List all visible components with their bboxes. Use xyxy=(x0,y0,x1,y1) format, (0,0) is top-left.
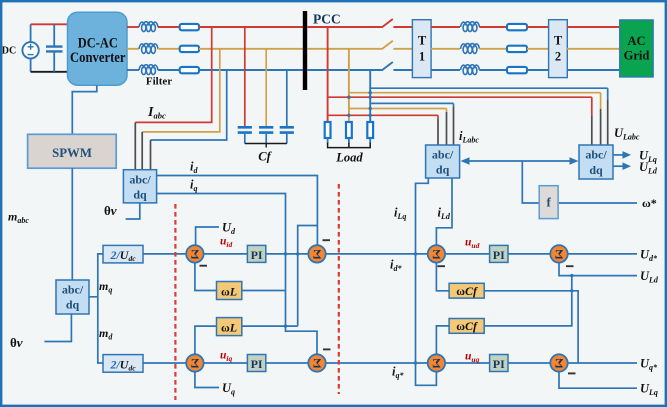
wire iL-meas C vertical gray xyxy=(453,103,455,107)
2/Udc block top xyxy=(103,245,143,263)
inductor grid Lc xyxy=(461,65,480,75)
minus S3 xyxy=(438,265,446,267)
svg-text:Σ: Σ xyxy=(191,356,200,371)
capacitor Cf B xyxy=(259,127,273,132)
wire load tap C blue vertical xyxy=(369,70,371,122)
wL block top xyxy=(217,282,242,300)
wire Cf tap C blue xyxy=(286,70,288,126)
svg-text:AC: AC xyxy=(627,34,645,48)
wire xyxy=(479,48,507,50)
wire U-meas A red horizontal xyxy=(328,96,592,98)
minus S1 xyxy=(200,265,208,267)
U_Lq output arrow xyxy=(613,151,631,159)
svg-text:Σ: Σ xyxy=(313,247,322,262)
wire T2 to grid C xyxy=(567,69,619,71)
load resistor RLa xyxy=(325,122,331,138)
wire Cf tap A red xyxy=(244,27,246,126)
PI block d-outer xyxy=(490,245,508,262)
load common bracket xyxy=(328,143,371,148)
svg-text:PI: PI xyxy=(493,248,505,262)
switch SB xyxy=(382,41,393,50)
wire I_abc verticals gray into abc/dq xyxy=(134,122,136,170)
wire theta-nu 2 to abc/dq U4 xyxy=(44,314,71,342)
svg-text:2: 2 xyxy=(555,49,561,63)
svg-text:ωL: ωL xyxy=(221,321,237,335)
summing junction S8 xyxy=(550,354,567,371)
switch SA xyxy=(382,19,393,28)
AC Grid xyxy=(620,20,654,77)
wire wL bottom right to i_d branch xyxy=(242,325,298,327)
wire q-axis main line xyxy=(143,362,637,364)
wire U-meas C blue horizontal xyxy=(370,87,608,89)
PI block q-inner xyxy=(247,355,265,372)
wire I_abc tap B orange xyxy=(142,49,220,132)
capacitor Cf A xyxy=(238,127,252,132)
wire iL-meas C blue horizontal xyxy=(370,102,453,104)
inductor grid Lb xyxy=(461,44,480,54)
wire wCf top right down to q output line xyxy=(484,291,578,363)
svg-text:Cf: Cf xyxy=(258,150,272,164)
svg-text:DC: DC xyxy=(2,46,16,57)
svg-text:Σ: Σ xyxy=(313,356,322,371)
svg-text:Σ: Σ xyxy=(432,356,441,371)
svg-text:abc/: abc/ xyxy=(62,283,84,297)
wire phase C after PCC xyxy=(307,69,381,71)
wire sum4 bottom to U_Ld line xyxy=(559,263,637,276)
wire load tap B orange vertical xyxy=(348,49,350,123)
wire U_Ld drop to wCf bottom xyxy=(484,276,572,326)
wire xyxy=(393,48,413,50)
U_Ld output arrow xyxy=(613,162,631,170)
svg-text:PI: PI xyxy=(251,248,263,262)
svg-text:Grid: Grid xyxy=(624,49,650,63)
summing junction S4 xyxy=(550,245,567,262)
svg-text:Σ: Σ xyxy=(432,247,441,262)
svg-text:PI: PI xyxy=(251,357,263,371)
wire I_abc tap A red xyxy=(135,27,211,122)
wire f to omega* xyxy=(559,202,637,204)
svg-text:ω*: ω* xyxy=(642,196,657,210)
svg-text:Load: Load xyxy=(335,151,363,165)
wire to T2 xyxy=(527,69,549,71)
wire phase C to PCC xyxy=(199,69,303,71)
minus S4 xyxy=(566,265,574,267)
transformer T2 xyxy=(549,20,568,78)
svg-text:abc/: abc/ xyxy=(129,173,151,187)
wire iL-meas B orange horizontal xyxy=(349,108,447,110)
wire i_d output xyxy=(157,176,318,246)
capacitor C_dc xyxy=(46,24,63,72)
svg-text:Converter: Converter xyxy=(70,50,126,66)
wire i_Lq from abc/dq U2 xyxy=(416,178,437,385)
load resistor RLb xyxy=(346,122,352,138)
wire U-meas C vertical into abc/dq xyxy=(607,88,609,99)
abc/dq U2 (load current) xyxy=(426,145,460,178)
svg-text:dq: dq xyxy=(436,163,450,177)
wire: dc top red xyxy=(31,23,69,25)
svg-text:Filter: Filter xyxy=(146,76,172,88)
resistor grid Rc xyxy=(507,67,527,73)
wire phase B after PCC xyxy=(307,48,381,50)
wCf block top xyxy=(449,283,484,298)
wire I_abc tap C blue xyxy=(151,70,227,140)
svg-text:T: T xyxy=(554,33,563,47)
resistor Rc xyxy=(180,67,199,73)
svg-text:abc/: abc/ xyxy=(432,148,454,162)
resistor Ra xyxy=(180,24,199,30)
svg-text:PCC: PCC xyxy=(313,12,341,27)
abc/dq U4 (modulation) xyxy=(56,280,89,314)
wire U-meas A vertical into abc/dq xyxy=(591,97,593,115)
wire phase A after PCC xyxy=(307,26,381,28)
summing junction S2 xyxy=(308,245,325,262)
load resistor RLc xyxy=(367,122,373,138)
dashed boundary left xyxy=(174,204,176,400)
svg-text:T: T xyxy=(418,33,427,47)
DC source V1 xyxy=(22,24,38,72)
minus S2 xyxy=(323,239,331,241)
minus S8 xyxy=(568,372,576,374)
summing junction S1 xyxy=(186,245,203,262)
svg-text:dq: dq xyxy=(133,188,147,202)
wire xyxy=(393,69,413,71)
transformer T1 xyxy=(412,20,431,78)
svg-text:ωL: ωL xyxy=(221,285,237,299)
svg-text:f: f xyxy=(547,195,552,210)
wire sum1 to wL top xyxy=(195,263,217,291)
wire to T2 xyxy=(527,48,549,50)
svg-text:dq: dq xyxy=(66,298,80,312)
inductor grid La xyxy=(461,22,480,32)
abc/dq U5 (inverter current) xyxy=(123,170,156,203)
wire U_q input xyxy=(195,372,219,388)
DC-AC Converter U1 xyxy=(68,12,128,85)
svg-text:θν: θν xyxy=(10,335,23,350)
svg-text:Σ: Σ xyxy=(191,247,200,262)
wire phase A to PCC xyxy=(199,26,303,28)
wire iL-meas B vertical gray xyxy=(446,109,448,113)
svg-text:SPWM: SPWM xyxy=(52,146,92,160)
wire d-axis main line xyxy=(143,253,637,255)
wire i_Ld from abc/dq U2 xyxy=(436,178,452,245)
wire xyxy=(393,26,413,28)
PI block q-outer xyxy=(490,355,508,372)
wire phase A red: converter to coil xyxy=(127,26,139,28)
Cf common bracket xyxy=(245,144,287,148)
svg-text:dq: dq xyxy=(589,163,603,177)
wire sum3 to wCf top xyxy=(436,263,449,291)
wire stubs below load resistors xyxy=(328,138,371,143)
svg-text:θν: θν xyxy=(104,203,117,218)
resistor Rb xyxy=(180,46,199,52)
wCf block bottom xyxy=(449,319,484,334)
wire Cf tap B orange xyxy=(265,49,267,126)
svg-text:PI: PI xyxy=(493,357,505,371)
inductor Lb xyxy=(139,44,158,54)
resistor grid Rb xyxy=(507,46,527,52)
svg-text:1: 1 xyxy=(419,49,425,63)
wire i_d branch to wL bottom xyxy=(298,226,318,327)
svg-text:Σ: Σ xyxy=(555,356,564,371)
wire xyxy=(479,69,507,71)
abc/dq U3 (load voltage) xyxy=(579,145,613,179)
PI block d-inner xyxy=(247,245,265,262)
summing junction S7 xyxy=(428,354,445,371)
wire theta-nu 1 to abc/dq U5 xyxy=(126,203,140,219)
wire T1 to coil C xyxy=(431,69,460,71)
svg-text:Σ: Σ xyxy=(555,247,564,262)
PCC bus bar xyxy=(303,11,307,90)
wire xyxy=(158,26,180,28)
2/Udc block bottom xyxy=(103,355,143,373)
summing junction S3 xyxy=(428,245,445,262)
wire: dc bottom black xyxy=(31,71,69,73)
wire xyxy=(158,69,180,71)
svg-text:ωCf: ωCf xyxy=(456,284,478,298)
wL block bottom xyxy=(217,318,242,336)
wire xyxy=(158,48,180,50)
wire U-meas B orange horizontal xyxy=(349,92,601,94)
wire T1 to coil B xyxy=(431,48,460,50)
wire wL top right to i_q vertical xyxy=(242,290,286,292)
wire wCf bottom left to sum7 top xyxy=(436,326,449,355)
summing junction S6 xyxy=(308,354,325,371)
wire DC-AC to SPWM xyxy=(72,85,97,133)
wire abc/dq U4 split to 2/Udc blocks xyxy=(89,254,103,363)
wire load tap A red vertical xyxy=(327,27,329,122)
wire iL-meas A vertical gray xyxy=(437,115,439,119)
wire i_q output xyxy=(157,194,317,355)
wire T2 to grid A xyxy=(567,26,619,28)
wire SPWM to abc/dq (m_abc) xyxy=(71,168,73,280)
resistor grid Ra xyxy=(507,24,527,30)
SPWM block xyxy=(28,134,117,168)
wire U-meas B vertical into abc/dq xyxy=(600,93,602,109)
minus S6 xyxy=(323,348,331,350)
double-headed sync arrow between dq blocks xyxy=(461,157,579,165)
capacitor Cf C xyxy=(280,127,294,132)
dashed boundary right xyxy=(338,184,340,394)
wire iL-meas A red horizontal xyxy=(328,114,438,116)
wire wL bottom left to sum5 xyxy=(195,326,217,354)
wire to T2 xyxy=(527,26,549,28)
inductor Lc xyxy=(139,65,158,75)
wire arrow-line to f block xyxy=(522,161,539,203)
svg-text:ωCf: ωCf xyxy=(456,319,478,333)
switch SC xyxy=(382,62,393,71)
wire U_d input xyxy=(196,227,219,245)
wire T1 to coil A xyxy=(431,26,460,28)
wire phase B orange: converter to coil xyxy=(127,48,139,50)
wire sum8 bottom to U_Lq line xyxy=(559,372,637,389)
wire phase B to PCC xyxy=(199,48,303,50)
wire phase C blue: converter to coil xyxy=(127,69,139,71)
f block xyxy=(539,186,558,219)
summing junction S5 xyxy=(186,354,203,371)
junction bumps xyxy=(284,91,574,365)
inductor La xyxy=(139,22,158,32)
svg-text:abc/: abc/ xyxy=(585,148,607,162)
wire xyxy=(479,26,507,28)
wire T2 to grid B xyxy=(567,48,619,50)
